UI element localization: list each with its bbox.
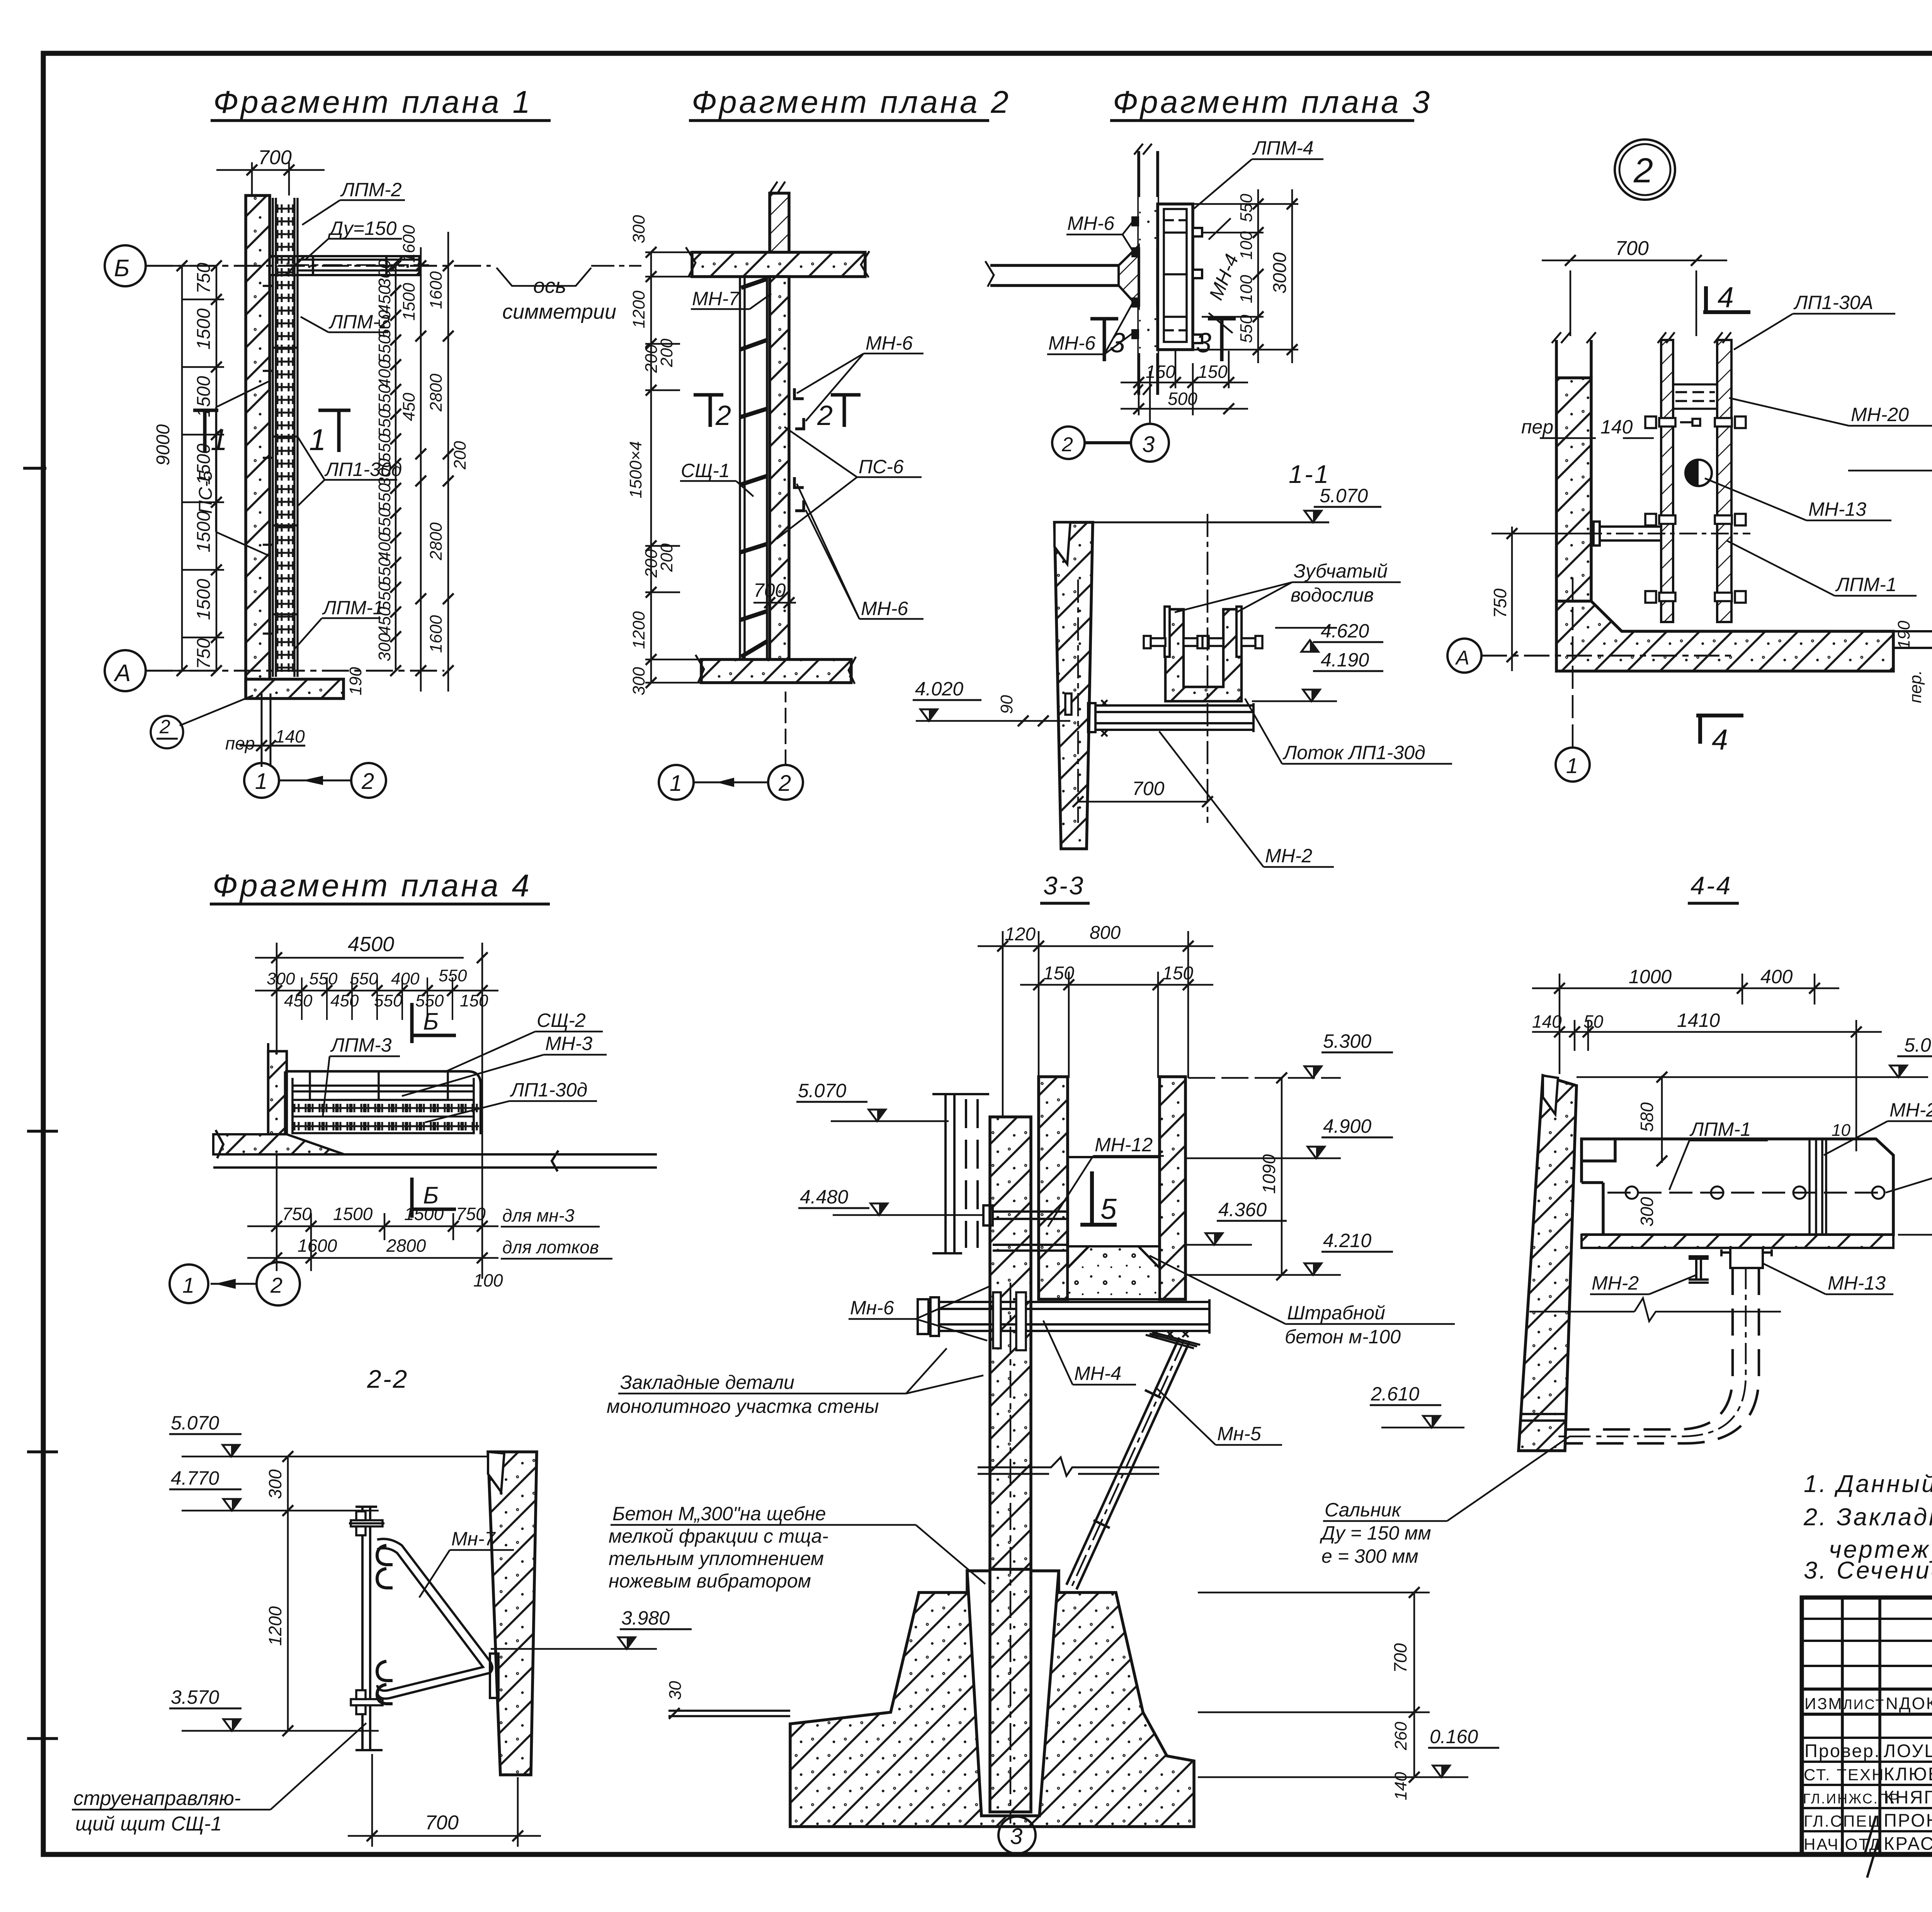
svg-text:1500: 1500 (333, 1204, 373, 1224)
svg-text:2: 2 (270, 1273, 282, 1297)
MN-2 beam (1088, 703, 1253, 732)
svg-text:1: 1 (211, 423, 227, 457)
svg-text:550: 550 (375, 335, 394, 363)
svg-text:щий щит СЩ-1: щий щит СЩ-1 (75, 1813, 222, 1835)
svg-text:1000: 1000 (1930, 540, 1932, 580)
svg-text:300: 300 (1637, 1197, 1657, 1227)
svg-text:Лоток ЛП1-30д: Лоток ЛП1-30д (1282, 742, 1425, 763)
svg-text:Фрагмент плана 1: Фрагмент плана 1 (213, 85, 532, 120)
svg-text:пер: пер (225, 733, 255, 753)
svg-text:Мн-5: Мн-5 (1217, 1423, 1261, 1445)
axis A (105, 650, 444, 691)
flag 4 top (1703, 286, 1750, 312)
svg-text:ЛПМ-4: ЛПМ-4 (1252, 137, 1314, 159)
svg-text:1500: 1500 (400, 283, 418, 321)
top slab (692, 252, 865, 277)
svg-text:1600: 1600 (298, 1236, 337, 1256)
MN-13 hole (1685, 460, 1712, 486)
wall pier above slab (770, 193, 789, 252)
break line across (1529, 1298, 1781, 1321)
svg-text:ЛПМ-1: ЛПМ-1 (1835, 574, 1897, 595)
slab right thin extension (1893, 626, 1932, 653)
svg-text:550: 550 (375, 582, 394, 610)
circles (170, 1262, 300, 1305)
trough U concrete (1165, 609, 1242, 701)
embedded plate in wall (1065, 693, 1071, 715)
svg-text:4: 4 (1712, 723, 1728, 756)
dim 700 top (216, 162, 325, 195)
svg-text:150: 150 (1162, 963, 1193, 984)
dims right (1194, 189, 1298, 363)
panel dashed with holes (1607, 1192, 1886, 1194)
svg-text:ГЛ.СПЕЦ: ГЛ.СПЕЦ (1804, 1812, 1881, 1830)
svg-text:Ду = 150 мм: Ду = 150 мм (1320, 1522, 1431, 1544)
node circle 2 (1615, 139, 1675, 200)
flag 5 (1080, 1171, 1117, 1225)
svg-text:4-4: 4-4 (1690, 871, 1732, 900)
svg-text:2800: 2800 (386, 1236, 426, 1256)
svg-text:550: 550 (1237, 194, 1256, 222)
trough box (1582, 1139, 1893, 1235)
svg-text:750: 750 (1490, 588, 1510, 618)
svg-text:ЛП1-30А: ЛП1-30А (1793, 292, 1873, 313)
panel stack left (932, 1094, 989, 1253)
horizontal pipe left (1584, 522, 1750, 546)
corner chamfer + bottom slab (1556, 601, 1893, 671)
svg-text:150: 150 (460, 991, 488, 1010)
node 2 circle bottom-left (151, 716, 183, 748)
svg-text:Фрагмент плана 2: Фрагмент плана 2 (692, 85, 1011, 120)
left wall of 3-3 with panel (990, 1117, 1031, 1569)
labels (330, 1010, 592, 1101)
black anchors marks on wall (1131, 216, 1139, 339)
svg-text:монолитного участка стены: монолитного участка стены (607, 1395, 879, 1417)
svg-text:550: 550 (375, 483, 394, 512)
svg-text:500: 500 (1168, 389, 1197, 409)
right wall tapered (488, 1452, 537, 1775)
svg-text:100: 100 (1237, 231, 1256, 260)
bottom circles 2-3 (1052, 371, 1169, 462)
svg-text:580: 580 (1637, 1102, 1657, 1132)
section flags 3 (1090, 319, 1236, 361)
1090 dim (1281, 1078, 1283, 1275)
left dims (151, 266, 224, 671)
labels (1265, 560, 1425, 867)
svg-text:550: 550 (375, 310, 394, 338)
svg-text:150: 150 (1198, 362, 1228, 382)
svg-text:140: 140 (275, 726, 305, 746)
dim 700 top (1542, 260, 1727, 336)
svg-text:300: 300 (265, 1469, 285, 1499)
svg-text:4.210: 4.210 (1323, 1230, 1371, 1251)
top bolt cluster (349, 1511, 384, 1535)
svg-text:1: 1 (182, 1273, 194, 1297)
svg-text:400: 400 (375, 532, 394, 561)
svg-text:1200: 1200 (265, 1606, 285, 1646)
bracket MN-7 (377, 1539, 498, 1698)
svg-text:550: 550 (375, 433, 394, 462)
svg-text:А: А (1455, 647, 1469, 669)
svg-text:КРАСАВИН: КРАСАВИН (1884, 1833, 1932, 1854)
beam (shtrabnoy) (918, 1297, 1209, 1336)
right dims chain (1198, 1592, 1430, 1777)
left wall tapered (1054, 522, 1093, 849)
svg-text:ПРОНИН: ПРОНИН (1884, 1810, 1932, 1830)
dotted concrete strips (1139, 197, 1158, 247)
louver panel strip ЛПМ (263, 198, 298, 677)
svg-text:1: 1 (670, 771, 682, 796)
section mark Б bottom (412, 1178, 456, 1218)
svg-text:МН-6: МН-6 (866, 332, 913, 354)
svg-text:750: 750 (194, 263, 214, 294)
svg-text:750: 750 (456, 1204, 486, 1224)
serrated weir plates (1165, 607, 1242, 657)
svg-text:NДОКУМ.: NДОКУМ. (1886, 1694, 1932, 1713)
column continues into socket (990, 1569, 1031, 1812)
svg-text:1000: 1000 (1629, 966, 1672, 987)
left wall (268, 1051, 287, 1134)
labels (1592, 1099, 1932, 1294)
svg-text:Б: Б (114, 255, 129, 282)
svg-text:5: 5 (1100, 1193, 1117, 1225)
svg-text:1600: 1600 (427, 615, 446, 653)
svg-text:4.020: 4.020 (915, 678, 963, 700)
dims 300 / 1200 (287, 1457, 289, 1731)
svg-text:9000: 9000 (153, 424, 173, 466)
svg-text:140: 140 (1532, 1011, 1562, 1032)
section flags 2 (694, 395, 861, 427)
svg-text:5.300: 5.300 (1323, 1030, 1371, 1052)
top dims (978, 931, 1213, 1120)
signatures (1865, 1745, 1932, 1878)
MN-20 plate dashed top (1673, 384, 1717, 409)
svg-text:750: 750 (194, 638, 214, 669)
svg-text:1: 1 (309, 423, 326, 457)
MN-13 bracket below slab (1721, 1248, 1772, 1268)
diagonal strut MN-5 (1066, 1338, 1189, 1589)
svg-text:4.480: 4.480 (800, 1186, 848, 1208)
svg-text:400: 400 (391, 969, 420, 988)
dim 4500 (255, 943, 498, 1279)
svg-text:1: 1 (255, 769, 267, 794)
U channel walls (1039, 1077, 1068, 1299)
central assembly strips (1661, 340, 1673, 622)
bottom dims (1121, 351, 1248, 415)
svg-text:МН-2: МН-2 (1592, 1272, 1639, 1294)
svg-text:750: 750 (282, 1204, 312, 1224)
svg-text:ЛПМ-2: ЛПМ-2 (340, 179, 402, 201)
svg-text:4500: 4500 (348, 933, 394, 956)
labels (1521, 292, 1909, 595)
svg-text:30: 30 (666, 1681, 685, 1700)
MN-12 plate (1068, 1156, 1160, 1158)
MN-20 verticals right (1810, 1139, 1826, 1235)
svg-text:2-2: 2-2 (367, 1365, 408, 1393)
vertical wall (1139, 151, 1158, 395)
svg-text:800: 800 (1090, 923, 1121, 943)
svg-text:140: 140 (1600, 416, 1633, 438)
svg-text:550: 550 (375, 409, 394, 437)
svg-text:2: 2 (778, 771, 791, 796)
svg-text:Провер.: Провер. (1804, 1740, 1881, 1761)
svg-text:100: 100 (1237, 275, 1256, 303)
drain pipe dashed bend (1557, 1268, 1759, 1443)
bottom axis circles (244, 703, 386, 798)
svg-text:МН-3: МН-3 (545, 1033, 592, 1054)
wall below slab (770, 277, 789, 659)
svg-text:МН-13: МН-13 (1828, 1272, 1886, 1294)
svg-text:3000: 3000 (1270, 252, 1290, 294)
svg-text:ПС-6: ПС-6 (859, 456, 904, 478)
svg-text:для мн-3: для мн-3 (502, 1205, 575, 1225)
svg-text:190: 190 (1895, 620, 1913, 649)
svg-text:1200: 1200 (629, 291, 648, 328)
bottom slab hatched (1582, 1235, 1893, 1248)
dim 1000 right (1848, 471, 1932, 657)
bolts under beam (1146, 1332, 1200, 1348)
svg-text:120: 120 (1005, 924, 1036, 945)
svg-text:4.190: 4.190 (1321, 649, 1369, 671)
svg-text:200: 200 (642, 549, 661, 578)
svg-text:e = 300 мм: e = 300 мм (1321, 1545, 1418, 1567)
svg-text:700: 700 (1390, 1643, 1410, 1673)
svg-text:ЛПМ-1: ЛПМ-1 (322, 597, 384, 619)
svg-text:ЛПМ-1: ЛПМ-1 (1689, 1118, 1751, 1140)
svg-text:150: 150 (1043, 963, 1074, 984)
svg-text:550: 550 (374, 991, 403, 1010)
svg-text:пер: пер (1521, 416, 1553, 438)
svg-text:2.610: 2.610 (1371, 1383, 1419, 1405)
bottom slab branch (246, 679, 344, 699)
svg-text:Мн-6: Мн-6 (850, 1297, 894, 1319)
section mark Б top (412, 1003, 456, 1043)
svg-text:3.980: 3.980 (621, 1607, 670, 1629)
svg-text:1500: 1500 (194, 579, 214, 620)
salnik label (1320, 1499, 1431, 1567)
svg-text:4.770: 4.770 (171, 1467, 219, 1489)
svg-text:МН-13: МН-13 (1808, 498, 1866, 520)
fold marks on left border (23, 468, 58, 1739)
svg-text:700: 700 (425, 1812, 459, 1834)
svg-text:550: 550 (375, 508, 394, 536)
bottom slab band (213, 1134, 344, 1154)
svg-text:Зубчатый: Зубчатый (1294, 560, 1388, 582)
svg-text:5.070: 5.070 (1320, 485, 1368, 506)
svg-text:СЩ-2: СЩ-2 (537, 1010, 586, 1031)
svg-text:МН-2: МН-2 (1265, 845, 1312, 867)
labels (607, 1297, 1401, 1592)
svg-text:200: 200 (451, 441, 469, 470)
svg-text:3: 3 (1110, 328, 1125, 359)
svg-text:тельным уплотнением: тельным уплотнением (609, 1548, 824, 1569)
svg-text:струенаправляю-: струенаправляю- (73, 1787, 241, 1810)
svg-text:ЛИСТ: ЛИСТ (1843, 1696, 1885, 1712)
svg-text:ЛПМ-3: ЛПМ-3 (330, 1034, 392, 1056)
break marks across column (978, 1457, 1159, 1476)
svg-text:400: 400 (1760, 966, 1793, 987)
panel assembly (285, 1071, 481, 1134)
svg-text:3: 3 (1196, 328, 1211, 359)
svg-text:700: 700 (753, 580, 786, 601)
left table verticals (1841, 1598, 1844, 1854)
svg-text:2800: 2800 (427, 522, 446, 561)
dim 700 bottom (1078, 514, 1207, 823)
svg-text:МН-4: МН-4 (1074, 1363, 1121, 1384)
svg-text:КНЯГИНИЧЕВ: КНЯГИНИЧЕВ (1884, 1787, 1932, 1807)
svg-text:2: 2 (1633, 151, 1653, 190)
axis center line + circle 3 (1010, 1283, 1012, 1824)
svg-text:МН-12: МН-12 (1095, 1134, 1153, 1156)
svg-text:1410: 1410 (1677, 1010, 1720, 1031)
svg-text:550: 550 (415, 991, 444, 1010)
bottom axis (659, 692, 803, 800)
svg-text:Фрагмент плана 3: Фрагмент плана 3 (1113, 85, 1432, 120)
left wall upper outline (1556, 340, 1591, 378)
svg-text:МН-7: МН-7 (692, 288, 740, 309)
svg-text:4: 4 (1718, 281, 1734, 313)
svg-text:водослив: водослив (1291, 584, 1374, 606)
dims left (645, 252, 748, 683)
chain ticks rows (271, 985, 488, 996)
svg-text:190: 190 (346, 667, 365, 695)
svg-text:300: 300 (629, 667, 648, 695)
svg-text:2. Закладные детали по узлу 1: 2. Закладные детали по узлу 1 устанавлив… (1803, 1504, 1932, 1531)
panel left of wall (740, 277, 767, 659)
svg-text:260: 260 (1391, 1722, 1410, 1751)
svg-text:4.360: 4.360 (1218, 1199, 1267, 1220)
pipe Ду=150 through slab (290, 255, 429, 275)
MN-2 I-beam below slab (1689, 1256, 1709, 1283)
svg-text:ЛП1-30д: ЛП1-30д (510, 1079, 587, 1101)
svg-text:МН-6: МН-6 (1067, 212, 1114, 234)
per / 140 (240, 693, 305, 767)
foundation pedestal (790, 1571, 1194, 1827)
svg-text:4.900: 4.900 (1323, 1115, 1371, 1137)
axis A (1447, 639, 1731, 673)
svg-text:СТ. ТЕХН: СТ. ТЕХН (1804, 1766, 1884, 1784)
svg-text:1200: 1200 (629, 611, 648, 649)
svg-text:200: 200 (642, 344, 661, 373)
svg-text:1090: 1090 (1259, 1154, 1279, 1194)
svg-text:Мн-7: Мн-7 (451, 1528, 496, 1550)
svg-text:1-1: 1-1 (1289, 460, 1330, 488)
svg-text:550: 550 (439, 966, 467, 985)
bolts rows (1645, 416, 1746, 603)
svg-text:300: 300 (375, 259, 394, 288)
svg-text:МН-20: МН-20 (1851, 404, 1909, 425)
svg-text:ножевым вибратором: ножевым вибратором (609, 1570, 811, 1592)
svg-text:100: 100 (473, 1270, 503, 1290)
svg-text:Штрабной: Штрабной (1287, 1302, 1385, 1324)
svg-text:Закладные детали: Закладные детали (620, 1372, 794, 1393)
brackets connecting (983, 1205, 1068, 1251)
svg-text:2: 2 (159, 716, 170, 738)
labels with leaders (322, 179, 402, 619)
svg-text:4.620: 4.620 (1321, 620, 1369, 642)
right dim chains (396, 232, 448, 692)
svg-text:ПС-5: ПС-5 (196, 471, 216, 514)
svg-text:50: 50 (1583, 1011, 1604, 1032)
bolts on trough walls (1144, 636, 1262, 648)
axis 1 circle (1556, 572, 1590, 782)
svg-text:5.070: 5.070 (171, 1412, 219, 1434)
svg-text:1600: 1600 (427, 271, 446, 309)
svg-text:для лотков: для лотков (502, 1237, 599, 1257)
svg-text:300: 300 (375, 458, 394, 487)
svg-text:3: 3 (1142, 432, 1155, 457)
embedded plates flanking column top (993, 1292, 1026, 1350)
left wall hatched (1556, 378, 1591, 601)
svg-text:1600: 1600 (400, 225, 418, 263)
svg-text:ИЗМ: ИЗМ (1804, 1694, 1843, 1713)
struenapravl label (73, 1787, 241, 1835)
svg-text:3: 3 (1010, 1824, 1022, 1849)
svg-text:А: А (113, 660, 131, 687)
svg-text:550: 550 (309, 969, 338, 988)
svg-text:550: 550 (375, 384, 394, 413)
top dims (1532, 974, 1882, 1151)
section flags 1 (193, 410, 350, 452)
svg-text:СЩ-1: СЩ-1 (681, 460, 730, 481)
svg-text:1500: 1500 (404, 1204, 444, 1224)
svg-text:1500×4: 1500×4 (626, 441, 645, 498)
svg-text:3-3: 3-3 (1043, 871, 1085, 900)
svg-text:бетон м-100: бетон м-100 (1285, 1326, 1401, 1348)
svg-text:450: 450 (375, 285, 394, 314)
svg-text:Б: Б (423, 1008, 439, 1035)
svg-text:2: 2 (1061, 433, 1073, 456)
svg-text:мелкой фракции с тща-: мелкой фракции с тща- (609, 1525, 828, 1547)
svg-text:140: 140 (1391, 1772, 1410, 1800)
hooks (377, 1545, 393, 1704)
svg-text:МН-20: МН-20 (1889, 1099, 1932, 1121)
bottom concrete between (1068, 1246, 1160, 1299)
svg-text:300: 300 (267, 969, 295, 988)
labels (1048, 137, 1314, 354)
horizontal wall branch (990, 265, 1139, 286)
flag 4 bottom (1696, 716, 1743, 744)
panel plate vertical (355, 1507, 383, 1750)
axis Б (105, 245, 491, 286)
wall concrete section (246, 195, 270, 692)
svg-text:10: 10 (1832, 1121, 1850, 1140)
small L marks (794, 388, 804, 511)
svg-text:1. Данный лист см. совместн: 1. Данный лист см. совместно с листами К… (1804, 1470, 1932, 1497)
left table horizontals (1802, 1618, 1932, 1620)
labels (681, 288, 913, 619)
svg-text:1500: 1500 (194, 511, 214, 552)
dim 750 left (1492, 527, 1596, 671)
svg-text:1: 1 (1566, 753, 1578, 778)
bolted frame MN-4 (1158, 204, 1193, 350)
svg-text:МН-6: МН-6 (861, 598, 908, 619)
svg-text:пер.: пер. (1906, 670, 1925, 703)
svg-text:1500: 1500 (194, 308, 214, 350)
svg-text:300: 300 (375, 633, 394, 661)
bottom slab (701, 659, 851, 683)
svg-text:Бетон М„300"на щебне: Бетон М„300"на щебне (612, 1503, 826, 1525)
svg-text:550: 550 (350, 969, 378, 988)
svg-text:ЛОУЦКЕР: ЛОУЦКЕР (1884, 1740, 1932, 1761)
svg-text:КЛЮЕВА: КЛЮЕВА (1884, 1764, 1932, 1784)
osʹ simmetrii (502, 274, 616, 323)
white socket slot (967, 1571, 1059, 1816)
svg-text:400: 400 (375, 359, 394, 388)
left tapered wall (1519, 1076, 1577, 1451)
wall joint lines (1522, 1413, 1567, 1415)
svg-text:2800: 2800 (427, 374, 446, 412)
top lid (1582, 1139, 1615, 1161)
